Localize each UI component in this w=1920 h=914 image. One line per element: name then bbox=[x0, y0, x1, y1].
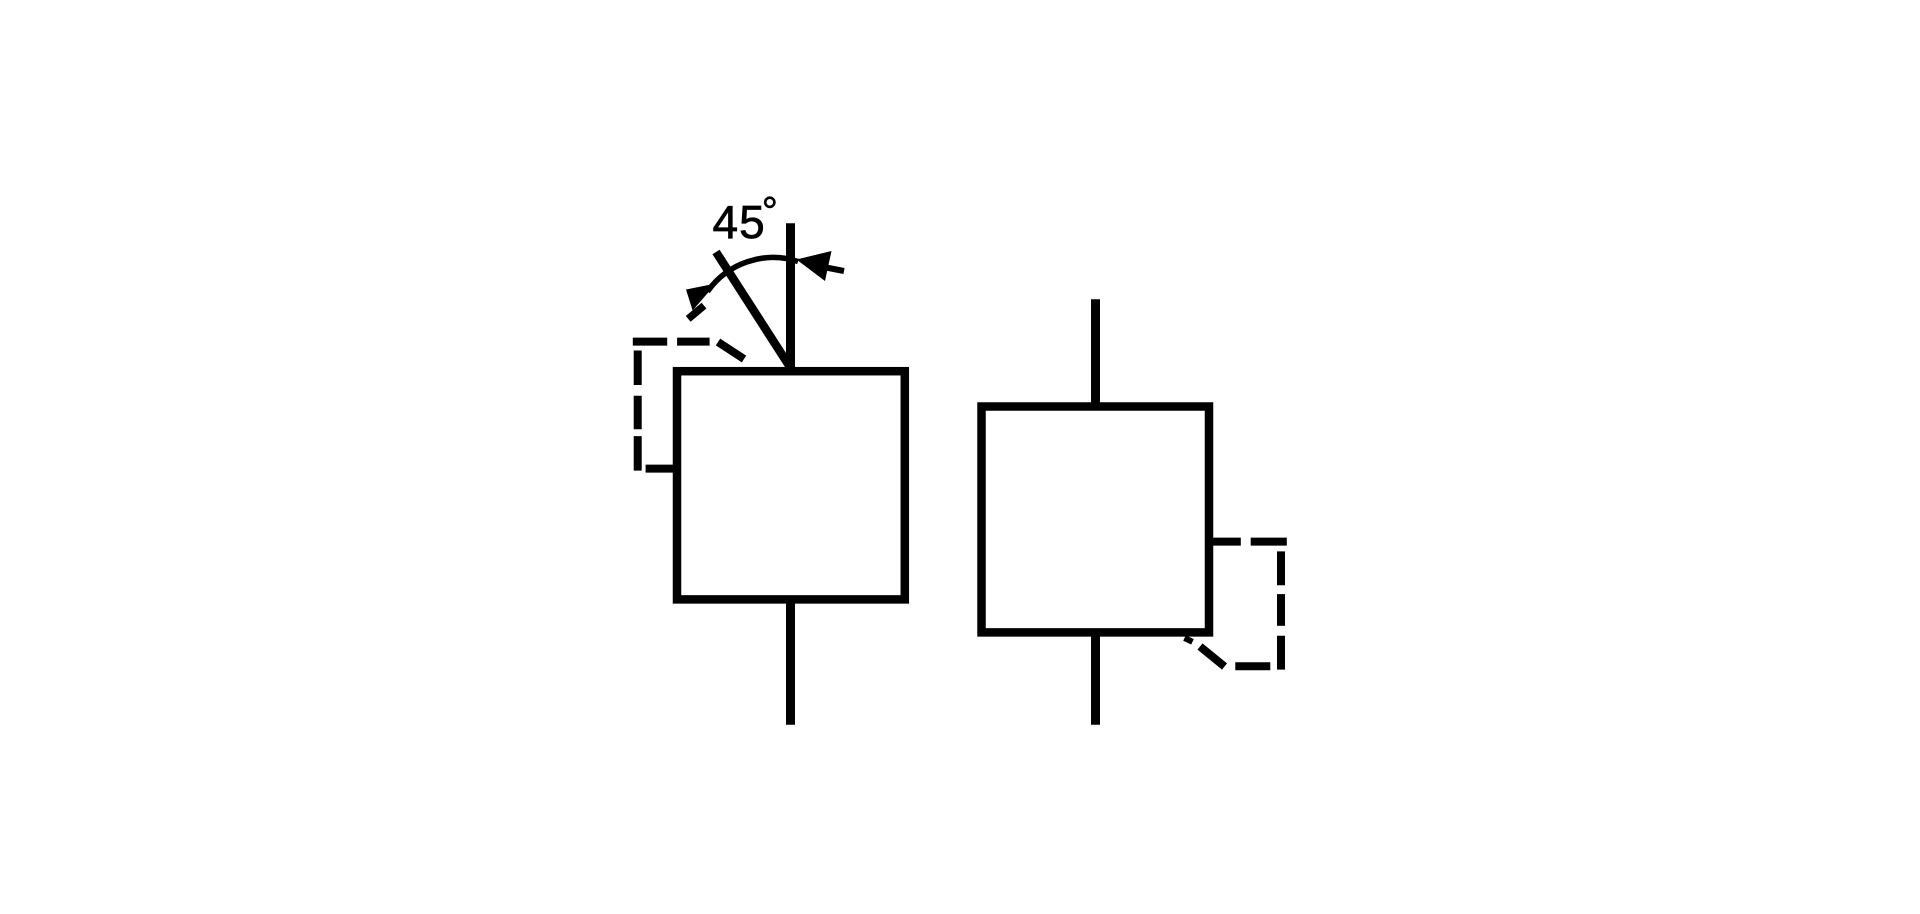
svg-text:45: 45 bbox=[713, 196, 766, 248]
right dashed hook: slanted tip stub at box corner bbox=[1185, 638, 1193, 642]
left dashed hook: slanted dash bbox=[718, 342, 744, 359]
right dashed hook: vertical dash 2 bbox=[1277, 594, 1285, 626]
left dashed hook: vertical dash 2 bbox=[634, 396, 642, 429]
right box top shaft (vertical wire) bbox=[1091, 299, 1100, 408]
tilted lever at 45 degrees bbox=[716, 252, 790, 367]
left box bottom shaft (vertical wire) bbox=[786, 597, 795, 725]
angle arc right arrowhead bbox=[797, 251, 832, 281]
left dashed hook: vertical dash 3 bbox=[634, 436, 642, 471]
left box top shaft (vertical wire) bbox=[786, 223, 795, 373]
right dashed hook: vertical dash 3 bbox=[1277, 636, 1285, 670]
left dashed hook: top horizontal dash 2 bbox=[677, 338, 710, 346]
right dashed hook: slanted dash bbox=[1200, 647, 1225, 667]
angle arc left tail tick bbox=[688, 306, 704, 319]
right dashed hook: vertical dash 1 bbox=[1277, 551, 1285, 585]
right box bottom shaft (vertical wire) bbox=[1091, 630, 1100, 725]
right dashed hook: top horizontal dash 2 bbox=[1251, 538, 1287, 546]
right box (solid square) bbox=[982, 407, 1210, 633]
angle arc right tail tick bbox=[826, 268, 844, 272]
left box (solid square) bbox=[677, 371, 905, 599]
left dashed hook: vertical dash 1 bbox=[634, 351, 642, 386]
left dashed hook: top horizontal dash 1 bbox=[633, 338, 667, 346]
right dashed hook: top horizontal dash 1 bbox=[1212, 538, 1240, 546]
right dashed hook: bottom horizontal dash bbox=[1235, 662, 1270, 670]
angle arc bbox=[708, 258, 799, 292]
left dashed hook: bottom stub into box bbox=[646, 465, 681, 473]
degree symbol bbox=[765, 198, 774, 207]
angle arc left arrowhead bbox=[686, 284, 716, 311]
